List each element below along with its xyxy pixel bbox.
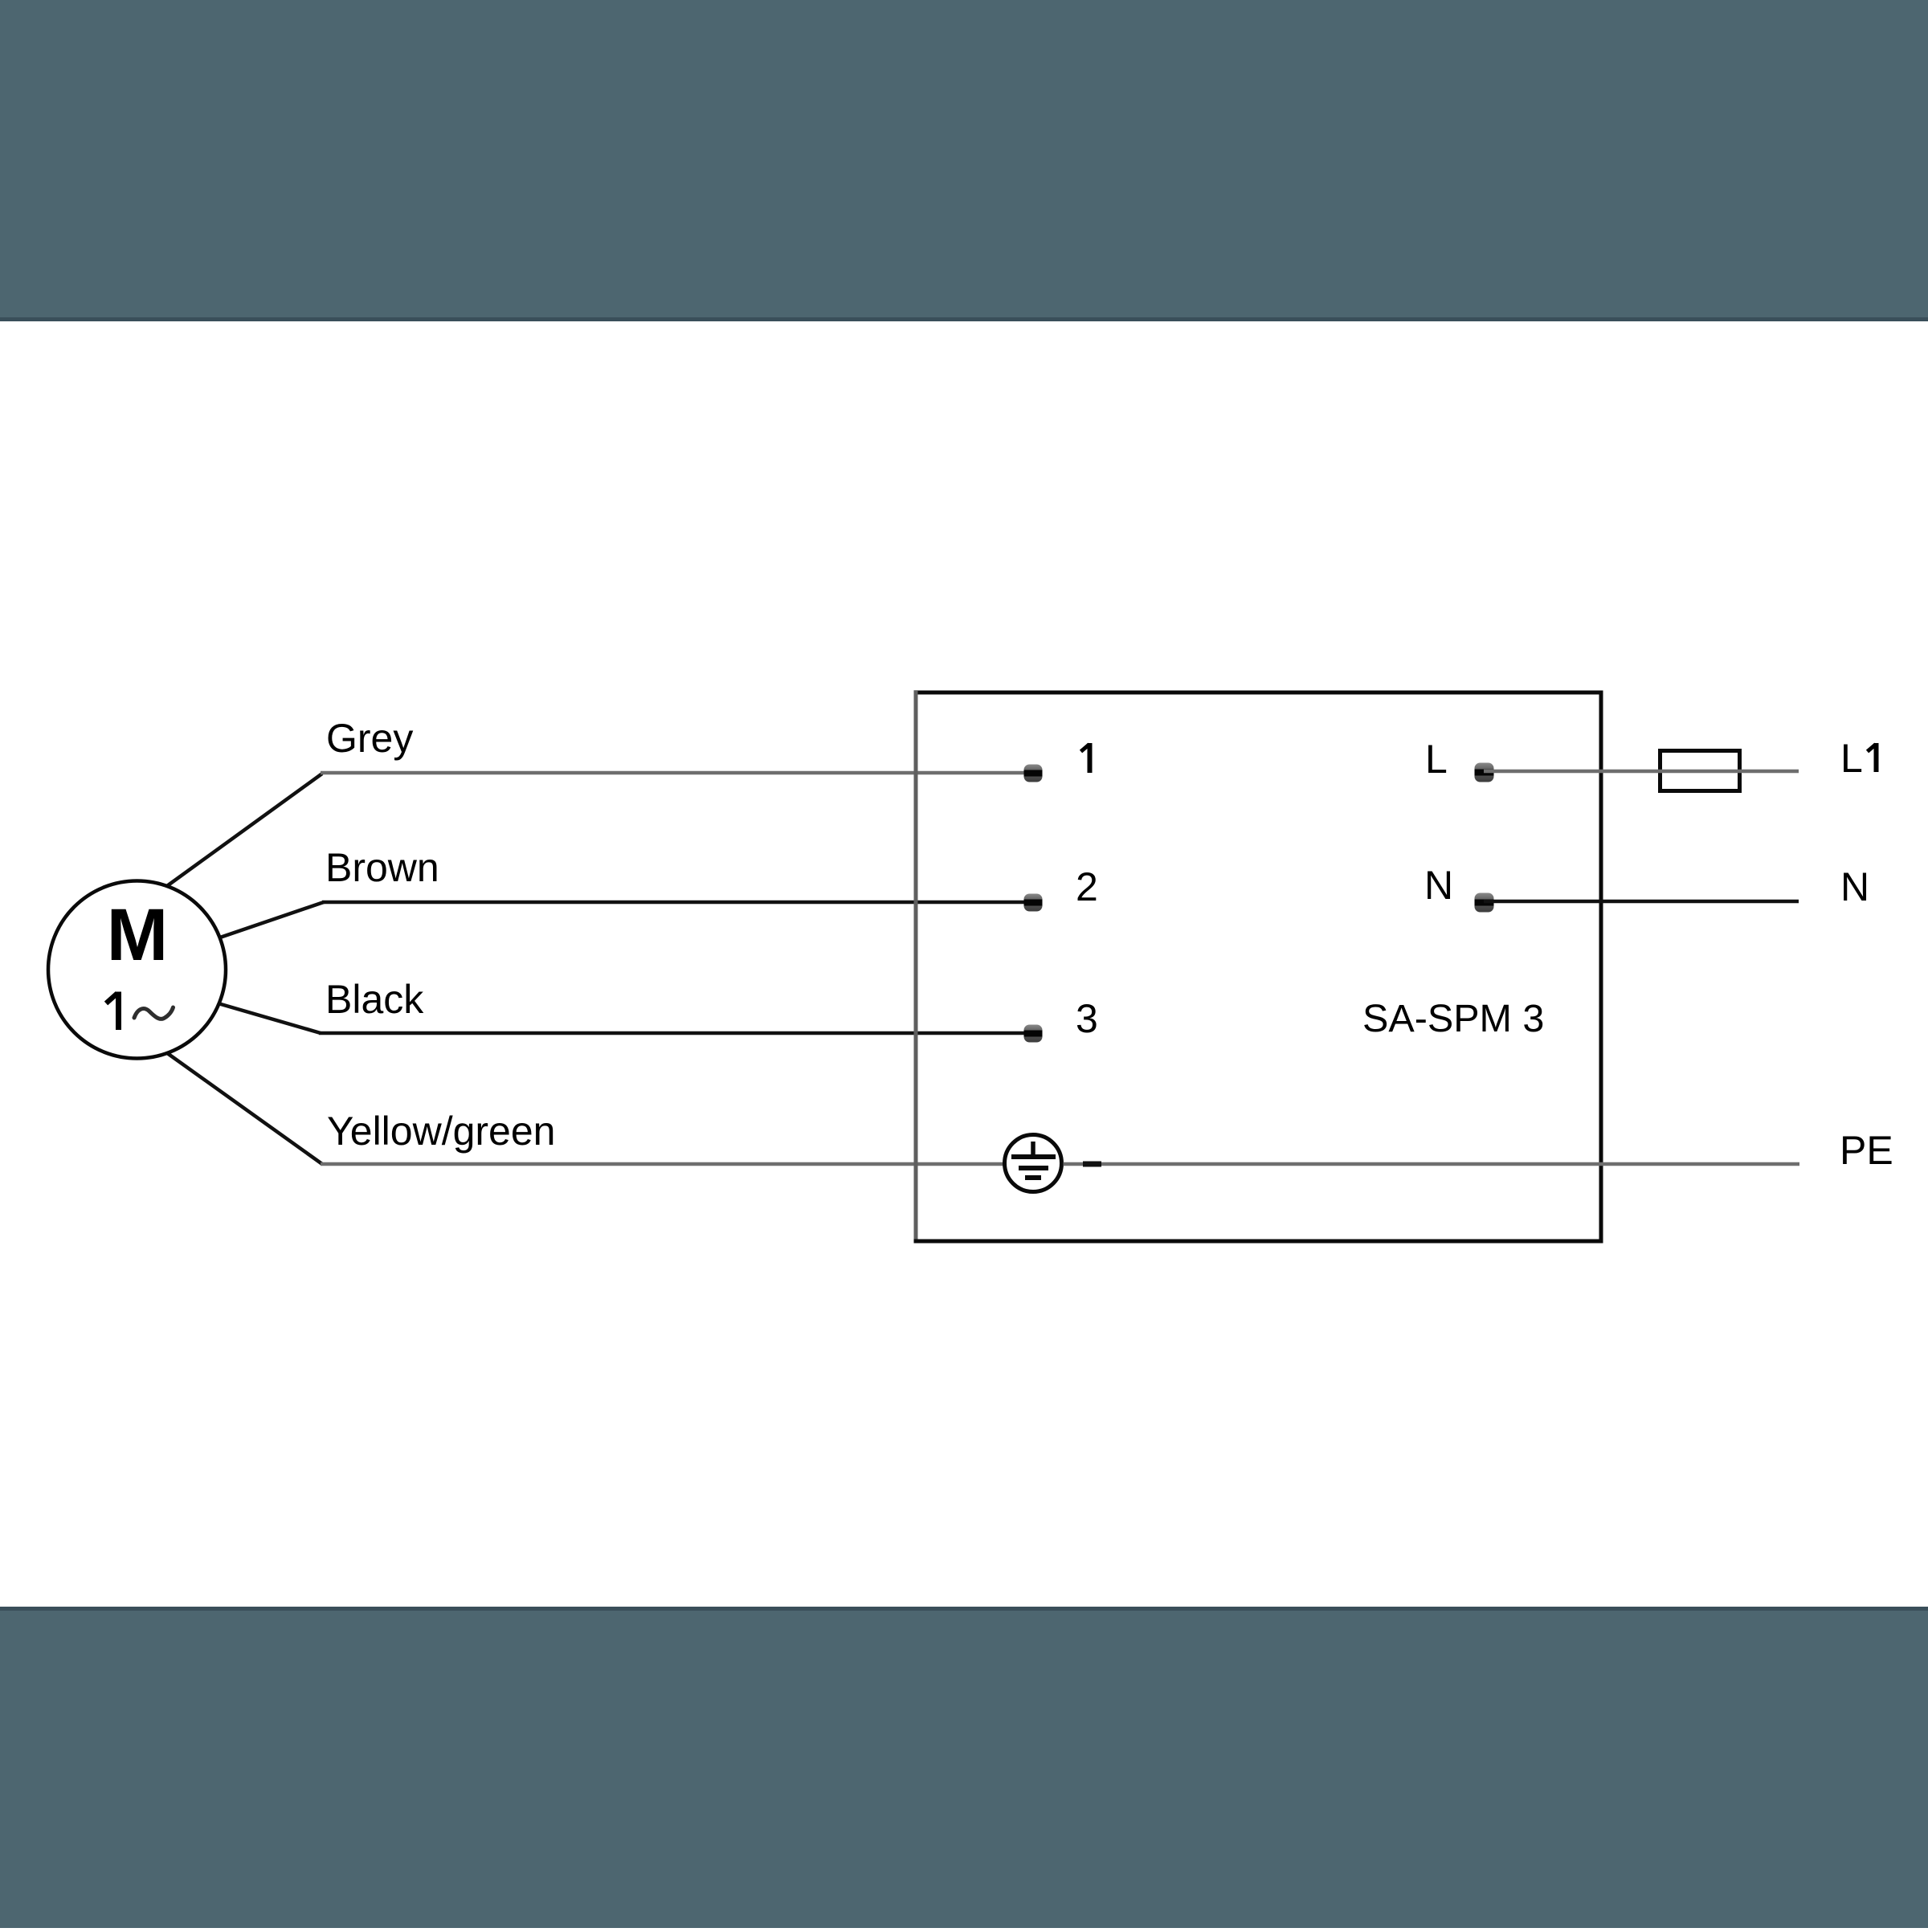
- terminal 3 dot: [1024, 1025, 1043, 1043]
- svg-text:Grey: Grey: [326, 716, 413, 761]
- wire: grey line through fuse: [1658, 770, 1742, 774]
- fuse F1: [1660, 751, 1740, 791]
- svg-text:M: M: [107, 894, 169, 976]
- wire: yellow/green slant from motor to row 4: [164, 1051, 322, 1164]
- wire: grey slant from motor to row 1: [165, 774, 322, 888]
- svg-text:Brown: Brown: [325, 845, 439, 890]
- terminal 2 dot: [1024, 894, 1043, 912]
- wire: grey PE horizontal row 4 left segment: [321, 1162, 1003, 1166]
- wire: black horizontal row 3 to terminal 3: [319, 1031, 1033, 1035]
- control box SA-SPM 3: [914, 691, 1603, 1243]
- svg-text:L: L: [1840, 736, 1863, 781]
- wire: black N line from terminal N to N: [1484, 900, 1799, 904]
- motor tilde wave: [134, 1007, 174, 1019]
- wire: grey horizontal row 1 to terminal 1: [321, 771, 1033, 775]
- terminal N dot: [1475, 893, 1494, 913]
- svg-text:N: N: [1424, 863, 1453, 908]
- net label L1: [1840, 736, 1877, 781]
- wire: grey L line from terminal L to L1: [1484, 770, 1799, 774]
- motor label 1: [106, 992, 119, 1031]
- wire: brown slant from motor to row 2: [215, 902, 324, 939]
- svg-text:Black: Black: [325, 977, 424, 1022]
- wire: brown horizontal row 2 to terminal 2: [322, 901, 1033, 905]
- svg-text:3: 3: [1076, 996, 1098, 1041]
- svg-text:L: L: [1425, 737, 1448, 782]
- terminal 1 dot: [1024, 765, 1043, 782]
- ground symbol PE: [1005, 1135, 1062, 1192]
- terminal L dot: [1475, 763, 1494, 782]
- svg-text:SA-SPM 3: SA-SPM 3: [1362, 997, 1544, 1040]
- bottom banner band: [0, 1607, 1928, 1928]
- svg-text:Yellow/green: Yellow/green: [327, 1109, 555, 1154]
- top banner band: [0, 0, 1928, 321]
- svg-text:PE: PE: [1840, 1128, 1893, 1173]
- motor M1 circle: [48, 881, 226, 1059]
- pin number 1: [1081, 743, 1090, 773]
- wire: grey PE horizontal row 4 right segment: [1064, 1162, 1800, 1166]
- svg-text:2: 2: [1076, 864, 1098, 909]
- svg-text:N: N: [1840, 864, 1869, 909]
- wire: black dash on PE line: [1083, 1162, 1101, 1167]
- wire: black slant from motor to row 3: [215, 1003, 321, 1033]
